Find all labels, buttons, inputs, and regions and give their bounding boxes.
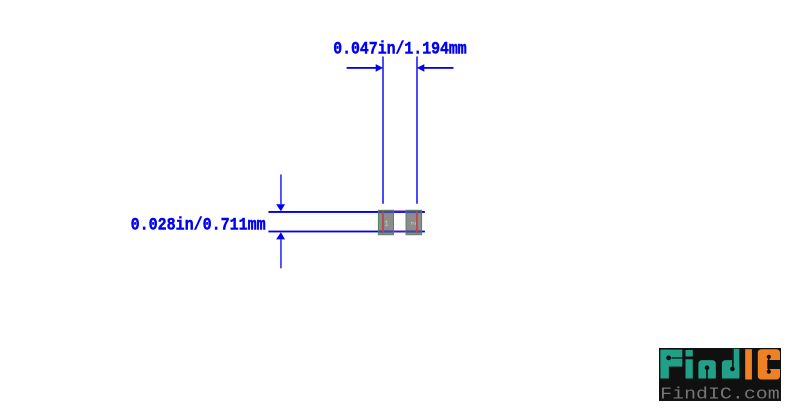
logo letter F: [660, 350, 682, 379]
logo letter d: [722, 349, 739, 379]
arrowhead pointing right: [376, 64, 383, 72]
logo background: [659, 348, 781, 401]
line crossing pad 2 bottom: [406, 230, 421, 232]
line crossing pad 1 top: [379, 211, 394, 213]
logo letter C: [758, 349, 780, 379]
logo letter I: [745, 349, 752, 379]
svg-text:0.028in/0.711mm: 0.028in/0.711mm: [131, 214, 266, 235]
vertical extension line upper: [280, 175, 281, 205]
logo letter n: [698, 360, 715, 378]
arrowhead pointing up: [276, 232, 285, 239]
arrowhead pointing down: [276, 204, 285, 211]
vertical extension line lower: [280, 239, 281, 268]
pad 2 centerline (red): [416, 212, 418, 234]
extension line at pad 1 centerline x=383: [382, 57, 383, 204]
courtyard bottom segment (purple): [383, 231, 418, 233]
svg-text:2: 2: [411, 221, 418, 225]
svg-text:1: 1: [385, 220, 389, 228]
dimension text 0.028in/0.711mm: [131, 214, 266, 235]
dimension leader line right: [424, 67, 454, 69]
svg-text:0.047in/1.194mm: 0.047in/1.194mm: [333, 38, 467, 59]
arrowhead pointing left: [417, 64, 424, 72]
dimension text 0.047in/1.194mm: [333, 38, 467, 59]
pad 1: [378, 210, 393, 234]
courtyard top segment (purple): [383, 211, 418, 213]
pad 2: [406, 210, 422, 234]
body outline bottom line: [268, 231, 425, 233]
extension line at pad 2 centerline x=417: [416, 57, 417, 204]
pad 1 centerline (red): [382, 212, 384, 234]
line crossing pad 1 bottom: [379, 230, 394, 232]
body outline top line: [268, 211, 425, 213]
logo letter i: [686, 350, 693, 379]
dimension leader line left: [347, 67, 378, 69]
line crossing pad 2 top: [406, 211, 421, 213]
svg-text:FindIC.com: FindIC.com: [660, 385, 780, 404]
